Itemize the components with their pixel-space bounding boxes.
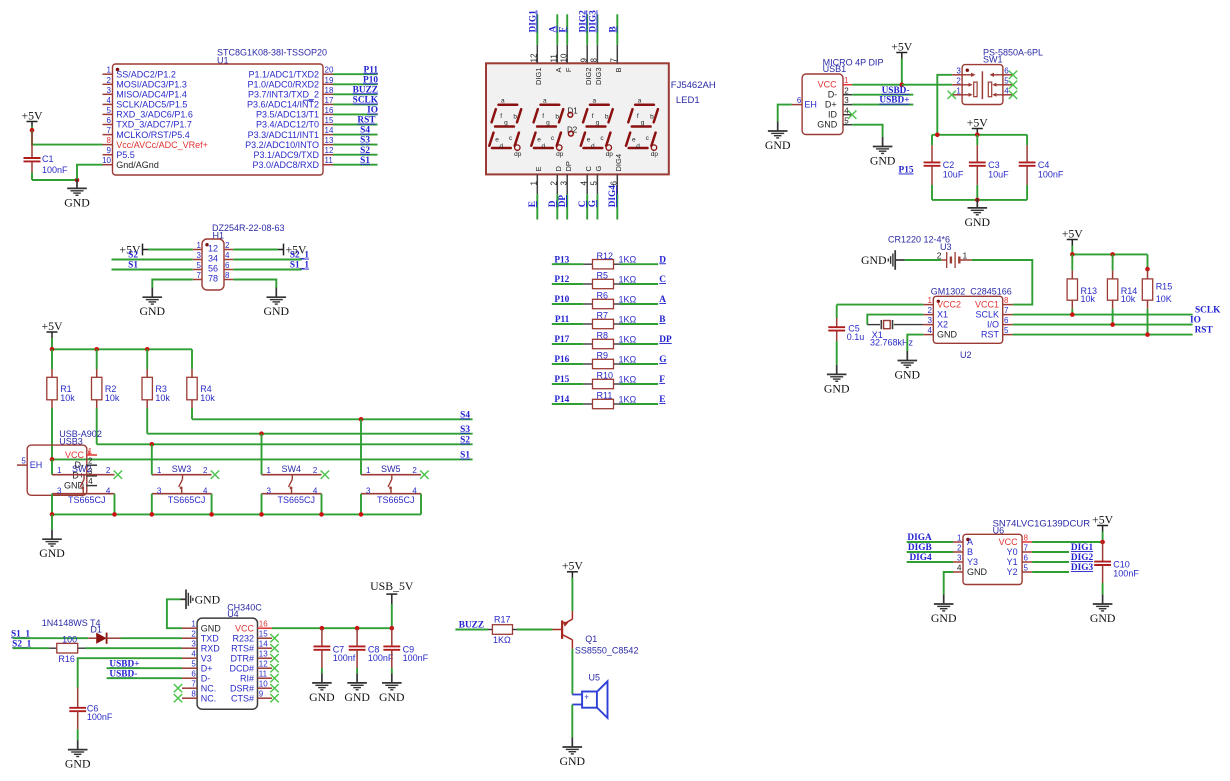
svg-text:X2: X2 [937, 320, 948, 330]
svg-text:E: E [534, 166, 543, 171]
LED1 top pin 9 net DIG2 [579, 14, 592, 85]
junction rail/R2 [94, 347, 99, 352]
no-connect U4 pin 7 [174, 684, 182, 692]
connector H1 title [212, 223, 285, 241]
node DIGA [907, 533, 932, 543]
svg-text:7: 7 [1024, 544, 1029, 553]
wire R12 to D [620, 263, 658, 265]
LED1 top pin 10 net F [559, 14, 572, 72]
svg-text:16: 16 [325, 106, 334, 115]
wire P15 to R10 [552, 383, 584, 385]
svg-text:2: 2 [225, 241, 230, 250]
svg-text:RTS#: RTS# [231, 643, 254, 653]
svg-text:G: G [588, 200, 598, 207]
LED1 digit 1 segments [489, 98, 521, 159]
svg-text:A: A [548, 26, 558, 33]
resistor R5 1K [583, 271, 636, 289]
svg-text:P3.2/ADC10/INTO: P3.2/ADC10/INTO [245, 140, 319, 150]
svg-text:C4: C4 [1038, 160, 1050, 170]
svg-text:12: 12 [208, 244, 218, 254]
svg-text:R5: R5 [597, 271, 609, 281]
node D (R12) [659, 255, 666, 265]
wire USB1 D- to USBD- [852, 94, 913, 96]
wire rail to R15 [1147, 254, 1149, 269]
U4 pin 9 CTS# [231, 690, 272, 704]
svg-text:a: a [593, 98, 597, 105]
resistor R4 10k [187, 349, 215, 408]
U1 pin 2 (MOSI/ADC3/P1.3) [103, 76, 187, 90]
connector USB1 body [802, 74, 843, 135]
power +5V flag (H1 right) [278, 243, 307, 257]
wire S2 to H1 pin3 [112, 259, 193, 261]
svg-text:dp: dp [606, 151, 614, 158]
svg-text:MISO/ADC4/P1.4: MISO/ADC4/P1.4 [116, 90, 187, 100]
svg-text:1KΩ: 1KΩ [619, 334, 637, 344]
wire SCLK [1013, 314, 1193, 316]
svg-text:SCLK: SCLK [353, 96, 379, 106]
wire SW5 pin3 to bus [360, 494, 362, 515]
power +5V flag (U6) [1092, 512, 1114, 531]
node DIG4 (LED1 bottom) [608, 185, 618, 208]
wire R13-R15 rail [1072, 253, 1147, 255]
node P14 [554, 395, 569, 405]
resistor R8 1K [583, 331, 636, 349]
U4 pin 11 RI# [240, 670, 272, 684]
node S2_1 [290, 251, 309, 261]
svg-text:3: 3 [191, 640, 196, 649]
LED1 bottom pin 5 net G [590, 166, 603, 220]
node P15 [554, 375, 569, 385]
svg-text:E: E [528, 201, 538, 207]
U6 pin 7 Y0 [1007, 544, 1033, 558]
no-connect U4 pin 13 [270, 654, 278, 662]
svg-text:5: 5 [844, 116, 849, 125]
svg-text:GM1302_C2845166: GM1302_C2845166 [931, 286, 1012, 296]
node S1 (H1) [128, 261, 138, 271]
wire R8 to DP [620, 343, 658, 345]
svg-text:LED1: LED1 [676, 95, 700, 106]
wire R13 to net [1071, 309, 1073, 315]
svg-text:1KΩ: 1KΩ [619, 314, 637, 324]
svg-text:17: 17 [325, 96, 334, 105]
svg-text:10k: 10k [1121, 294, 1136, 304]
svg-text:+: + [584, 693, 589, 702]
svg-text:5: 5 [1024, 564, 1029, 573]
no-connect U4 pin 14 [270, 644, 278, 652]
IC U6 SN74LVC1G139 body [963, 534, 1022, 584]
wire H1 pin6 to S1_1 [233, 269, 301, 271]
power +5V flag (Q1) [562, 559, 584, 578]
USB3 pin 5 EH [17, 457, 42, 470]
svg-text:GND: GND [201, 623, 222, 633]
svg-text:15: 15 [325, 116, 334, 125]
U1 pin 5 (RXD_3/ADC6/P1.6) [103, 106, 193, 120]
svg-text:5: 5 [21, 457, 26, 466]
node G (R9) [659, 355, 666, 365]
LED1 bottom pin 1 net E [530, 166, 543, 219]
H1 pins 3/4 [193, 251, 233, 264]
wire U1 pin 16 net IO [333, 113, 378, 115]
svg-text:DP: DP [564, 161, 573, 171]
svg-text:R9: R9 [597, 351, 609, 361]
junction rail/R13 [1070, 252, 1075, 257]
svg-text:R12: R12 [597, 251, 614, 261]
svg-text:10k: 10k [105, 393, 120, 403]
U6 pin 3 Y3 [953, 554, 978, 568]
ground GND (caps) [965, 198, 991, 229]
junction bottom rail/GND [975, 198, 980, 203]
svg-text:1KΩ: 1KΩ [619, 374, 637, 384]
LED1 bottom pin 4 net C [579, 166, 592, 220]
ground GND (USB1 pin5) [870, 137, 896, 168]
wire R4 to bus [191, 408, 193, 419]
svg-text:DTR#: DTR# [230, 653, 254, 663]
svg-text:3: 3 [928, 316, 933, 325]
wire R15 to net [1147, 309, 1149, 335]
svg-text:SW3: SW3 [172, 464, 192, 474]
svg-text:GND: GND [195, 592, 221, 606]
svg-text:16: 16 [259, 620, 268, 629]
capacitor C1 [24, 130, 69, 175]
USB1 pin 3 D+ [825, 96, 852, 109]
svg-text:1: 1 [530, 181, 539, 186]
svg-text:7: 7 [1004, 306, 1009, 315]
U2 pin 7 SCLK [975, 306, 1012, 320]
no-connect SW1 pin6 [1009, 71, 1017, 79]
svg-text:RXD_3/ADC6/P1.6: RXD_3/ADC6/P1.6 [116, 110, 193, 120]
LED1 bottom pin 2 net D [550, 166, 563, 220]
U1 pin 17 (P3.6/ADC14/INT2) [247, 96, 334, 110]
svg-text:+5V: +5V [1092, 512, 1114, 526]
svg-text:VCC: VCC [999, 537, 1019, 547]
svg-text:10uF: 10uF [943, 170, 964, 180]
resistor R10 1K [583, 371, 636, 389]
svg-text:10: 10 [102, 156, 111, 165]
svg-text:DIG3: DIG3 [594, 68, 603, 86]
U2 pin 5 RST [981, 326, 1013, 340]
wire +5V flag to junction [1102, 532, 1104, 543]
IC U4 title [227, 603, 262, 620]
U1 pin 13 (P3.2/ADC10/INTO) [245, 136, 334, 150]
resistor R7 1K [583, 311, 636, 329]
junction GND bus x=211.6 [209, 512, 214, 517]
svg-text:ID: ID [828, 110, 838, 120]
svg-text:RST: RST [357, 116, 376, 126]
svg-text:1: 1 [197, 241, 202, 250]
svg-text:Y1: Y1 [1007, 557, 1018, 567]
wire H1 pin2 to +5V [233, 249, 278, 251]
USB1 pin 2 D- [828, 86, 853, 99]
node DIG1 (LED1 top) [528, 10, 538, 33]
node USBD- (USB1) [882, 86, 910, 96]
svg-text:DSR#: DSR# [230, 683, 254, 693]
svg-text:R8: R8 [597, 331, 609, 341]
wire U2 X1 to crystal [867, 315, 923, 325]
node P10 [554, 295, 569, 305]
U1 pin 10 (Gnd/AGnd) [102, 156, 159, 170]
svg-text:4: 4 [191, 650, 196, 659]
wire R10 to F [620, 383, 658, 385]
svg-text:13: 13 [325, 136, 334, 145]
wire H1 pin7 to GND [152, 280, 193, 289]
resistor R3 10k [142, 349, 170, 408]
ground GND (H1 right) [264, 288, 290, 319]
U1 pin 6 (TXD_3/ADC7/P1.7) [103, 116, 192, 130]
svg-text:S4: S4 [460, 410, 470, 420]
svg-text:2: 2 [550, 181, 559, 186]
svg-text:Y0: Y0 [1007, 547, 1018, 557]
resistor R11 1K [583, 391, 636, 409]
node S1_1 (U4) [11, 629, 30, 639]
wire R6 to A [620, 303, 658, 305]
svg-text:SCLK: SCLK [975, 310, 999, 320]
svg-text:8: 8 [1004, 296, 1009, 305]
battery U3 CR1220 symbol [937, 251, 972, 269]
node DIG3 (LED1 top) [589, 10, 599, 33]
svg-text:IO: IO [1190, 316, 1201, 326]
svg-text:F: F [564, 67, 573, 72]
connector H1 DZ254R body [202, 239, 224, 290]
wire R17 to Q1 base [517, 629, 553, 631]
svg-text:USB1: USB1 [823, 64, 847, 74]
junction rail/R14 [1110, 252, 1115, 257]
U1 pin 11 (P3.0/ADC8/RXD) [252, 156, 333, 170]
junction GND bus x=321.5 [319, 512, 324, 517]
node RST [357, 116, 376, 126]
svg-text:10k: 10k [155, 393, 170, 403]
U4 pin 6 D- [182, 670, 210, 684]
wire SW3 pin4 to bus [211, 494, 213, 515]
node RST [1195, 326, 1214, 336]
ground GND (switches) [39, 530, 65, 561]
svg-text:NC.: NC. [201, 683, 217, 693]
svg-text:6: 6 [797, 96, 802, 105]
wire R2 to bus [96, 408, 98, 444]
resistor R17 1K [488, 615, 517, 646]
svg-text:f: f [542, 113, 544, 120]
svg-text:2: 2 [191, 630, 196, 639]
no-connect USB1 pin4 [848, 111, 856, 119]
svg-text:14: 14 [325, 126, 334, 135]
no-connect SW3 pin2 [211, 471, 219, 479]
svg-text:10uF: 10uF [988, 170, 1009, 180]
svg-text:14: 14 [259, 640, 268, 649]
node SCLK [1195, 306, 1221, 316]
wire U1 pin 14 net S4 [333, 134, 378, 136]
capacitor C7 100nf [314, 628, 356, 673]
no-connect SW5 pin2 [420, 471, 428, 479]
wire S2_1 to R16 [13, 647, 49, 649]
junction VCC/C7 [320, 626, 325, 631]
junction S1/R1/SW2 [50, 457, 55, 462]
svg-text:SS/ADC2/P1.2: SS/ADC2/P1.2 [116, 69, 176, 79]
svg-text:1: 1 [366, 466, 371, 475]
LED1 colon D1 [568, 106, 579, 117]
svg-text:F: F [558, 27, 568, 33]
SW1 pin 3 [952, 66, 962, 75]
svg-text:MCLKO/RST/P5.4: MCLKO/RST/P5.4 [116, 130, 190, 140]
no-connect U4 pin 12 [270, 664, 278, 672]
svg-text:100nF: 100nF [403, 653, 429, 663]
svg-text:GND: GND [64, 195, 90, 209]
svg-text:DP: DP [659, 335, 672, 345]
svg-text:4: 4 [313, 486, 318, 495]
power USB_5V flag [370, 579, 414, 604]
svg-text:3: 3 [957, 554, 962, 563]
node DP (R8) [659, 335, 672, 345]
svg-text:USBD+: USBD+ [879, 96, 909, 106]
svg-text:P3.6/ADC14/INT2: P3.6/ADC14/INT2 [247, 100, 319, 110]
wire U1 pin 13 net S3 [333, 144, 378, 146]
wire USBD+ to U4 [107, 667, 182, 669]
svg-text:+5V: +5V [41, 319, 63, 333]
ground GND (C1) [64, 179, 90, 210]
svg-text:2: 2 [412, 466, 417, 475]
SW1 pin 2 [952, 76, 962, 85]
junction rail/+5V/C3 [975, 133, 980, 138]
svg-text:11: 11 [325, 156, 334, 165]
wire SW2 pin4 to bus [114, 494, 116, 515]
svg-text:CTS#: CTS# [231, 693, 254, 703]
svg-text:D: D [659, 255, 666, 265]
svg-text:15: 15 [259, 630, 268, 639]
USB3 pin 2 D- [75, 457, 98, 471]
node DIG2 (LED1 top) [578, 10, 588, 33]
node SCLK [353, 96, 379, 106]
wire U4 GND pin1 [167, 599, 182, 628]
junction rail/SW1 drop [935, 133, 940, 138]
svg-text:4: 4 [1004, 86, 1009, 95]
wire P12 to R5 [552, 283, 584, 285]
ground GND (H1 left) [140, 288, 166, 319]
IC U1 STC8G1K08 body [113, 64, 324, 175]
svg-text:D: D [554, 166, 563, 172]
svg-text:+5V: +5V [21, 108, 43, 122]
svg-text:D+: D+ [201, 663, 213, 673]
junction +5V/USB1/SW1 [900, 82, 905, 87]
svg-text:Q1: Q1 [585, 634, 597, 644]
svg-text:Y3: Y3 [967, 557, 978, 567]
svg-text:5: 5 [107, 106, 112, 115]
svg-text:A: A [659, 295, 666, 305]
svg-text:GND: GND [379, 690, 405, 704]
node S3 [360, 136, 370, 146]
power +5V flag (U1) [21, 108, 43, 127]
U2 pin 3 X2 [923, 316, 948, 330]
junction VCC/C9 [390, 626, 395, 631]
svg-text:Gnd/AGnd: Gnd/AGnd [116, 160, 159, 170]
wire U6 to DIG1 [1032, 551, 1069, 553]
svg-text:2: 2 [313, 466, 318, 475]
svg-text:1: 1 [88, 447, 93, 456]
node S1 [360, 156, 370, 166]
wire +5V to junction [901, 59, 903, 85]
svg-text:d: d [636, 143, 640, 150]
svg-text:USB_5V: USB_5V [370, 579, 414, 593]
U4 pin 1 GND [182, 620, 221, 634]
wire speaker to GND [571, 705, 573, 738]
capacitor C9 100nF [383, 628, 428, 673]
svg-text:4: 4 [203, 486, 208, 495]
svg-text:19: 19 [325, 76, 334, 85]
U6 pin 1 A [953, 534, 973, 548]
svg-text:1: 1 [57, 466, 62, 475]
USB1 pin 6 EH [792, 96, 817, 109]
svg-text:4: 4 [412, 486, 417, 495]
wire P11 to R7 [552, 323, 584, 325]
svg-text:9: 9 [579, 58, 588, 63]
svg-text:U2: U2 [960, 350, 972, 360]
wire +5V junction to U1 pin8 [32, 130, 103, 144]
svg-text:1: 1 [191, 620, 196, 629]
svg-text:TS665CJ: TS665CJ [377, 495, 415, 505]
svg-text:GND: GND [967, 567, 988, 577]
junction R13 [1070, 312, 1075, 317]
svg-text:5: 5 [1004, 76, 1009, 85]
wire C1 to GND [32, 173, 77, 181]
LED1 colon D2 [567, 125, 578, 136]
U6 pin 2 B [953, 544, 973, 558]
wire bus S4 [192, 418, 473, 420]
no-connect SW1 pin5 [1009, 81, 1017, 89]
svg-text:R17: R17 [494, 615, 511, 625]
wire U4 V3 to C6 [78, 658, 182, 687]
svg-text:P1.0/ADC0/RXD2: P1.0/ADC0/RXD2 [247, 80, 319, 90]
svg-text:R15: R15 [1156, 281, 1173, 291]
svg-text:P15: P15 [899, 166, 914, 176]
wire R5 to C [620, 283, 658, 285]
U4 pin 14 RTS# [231, 640, 272, 654]
resistor R2 10k [92, 349, 120, 408]
node P15 (floating) [899, 166, 914, 176]
node E (R11) [659, 395, 665, 405]
svg-text:GND: GND [965, 215, 991, 229]
svg-text:S1: S1 [460, 451, 470, 461]
svg-text:B: B [659, 315, 665, 325]
display LED1 FJ5462AH body [486, 63, 669, 174]
junction +5V/C1/pin8 [30, 128, 35, 133]
svg-text:3: 3 [267, 486, 272, 495]
IC U6 title [993, 519, 1091, 536]
svg-text:B: B [608, 26, 618, 32]
svg-text:C3: C3 [988, 160, 1000, 170]
svg-text:3: 3 [366, 486, 371, 495]
svg-text:7: 7 [610, 58, 619, 63]
connector USB3 USB-A902 body [27, 445, 87, 495]
svg-text:d: d [500, 143, 504, 150]
svg-text:56: 56 [208, 264, 218, 274]
transistor Q1 SS8550 [553, 611, 639, 656]
wire cap bottom rail [932, 199, 1027, 201]
svg-text:f: f [500, 113, 502, 120]
U2 pin 2 X1 [923, 306, 948, 320]
svg-text:DCD#: DCD# [229, 663, 254, 673]
ground GND (U2) [895, 351, 921, 382]
svg-text:8: 8 [107, 136, 112, 145]
svg-text:3: 3 [559, 181, 568, 186]
wire BUZZ to R17 [455, 629, 488, 631]
svg-text:SW1: SW1 [983, 55, 1003, 65]
svg-text:2: 2 [844, 86, 849, 95]
svg-text:NC.: NC. [201, 693, 217, 703]
svg-text:R6: R6 [597, 291, 609, 301]
svg-text:18: 18 [325, 86, 334, 95]
ground GND (USB1 EH) [765, 122, 791, 153]
wire R1 junction down to SW2 [51, 459, 53, 474]
U6 pin 4 GND [953, 564, 988, 578]
LED1 digit 3 segments [581, 98, 613, 159]
svg-text:C: C [659, 275, 666, 285]
